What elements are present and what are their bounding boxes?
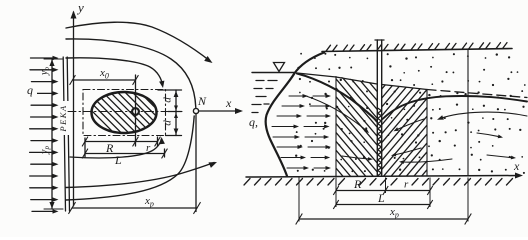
streamline into well from left (lower) [342, 156, 370, 159]
ground surface hatch marks [326, 43, 507, 52]
streamline A (top bypass) [66, 22, 210, 61]
svg-text:d: d [162, 97, 174, 103]
groundwater divide vertical (radius of influence) [467, 50, 469, 177]
svg-text:РЕКА: РЕКА [58, 104, 68, 132]
dimension x_p (right diagram) [296, 214, 472, 225]
svg-text:R: R [353, 177, 362, 191]
dimension y_p (vertical, along river) [44, 59, 63, 209]
dimension L (left diagram) [82, 138, 167, 158]
label q (inflow, left diagram) [26, 83, 37, 96]
water level marker (nabla) [274, 63, 285, 72]
drawdown curve (left of well) [297, 74, 377, 122]
svg-text:L: L [377, 191, 385, 205]
svg-text:r: r [404, 179, 409, 191]
dimension x_p (left diagram) [69, 114, 201, 214]
static water table (solid part) [297, 73, 427, 90]
static water table (dashed part) [427, 90, 527, 98]
dimension x_0 [70, 75, 138, 146]
right diagram: vertical cross-section of well near river [237, 40, 527, 185]
left diagram: plan view of well capture zone near river [26, 0, 243, 214]
river inflow arrows (left column) [30, 56, 59, 214]
streamline B (top boundary to N) [66, 39, 196, 108]
dimension d,d (vertical at ellipse right) [158, 90, 182, 136]
dashed rectangle around depression ellipse [83, 90, 166, 136]
drawdown curve (right of well) [383, 96, 528, 119]
streamline into well from right (mid) [394, 148, 421, 155]
svg-text:x: x [513, 159, 520, 173]
river water surface line [252, 72, 295, 74]
outflow arrow right of divide (lower) [487, 155, 513, 158]
dimension R and r (below ellipse) [82, 137, 160, 146]
well casing (double line) [376, 40, 378, 176]
outflow arrow right of divide (upper) [477, 133, 500, 137]
soil dots (aquifer texture) [295, 53, 526, 174]
extension lines for dimensions (right diagram) [299, 178, 468, 222]
label РЕКА (river, vertical) [60, 101, 70, 135]
well (plan view) [132, 108, 139, 115]
streamline into well from right (upper) [396, 119, 424, 130]
seepage arrows q (right diagram) [272, 94, 331, 170]
dimension L (right diagram) [333, 200, 432, 209]
streamline C (top captured, arrow into zone) [66, 58, 163, 85]
streamline toward well along base [402, 159, 452, 162]
streamline D (bottom bypass) [66, 163, 214, 188]
dimension R and r (right diagram) [333, 186, 432, 195]
river bank (S-shaped slope) [266, 53, 324, 177]
svg-text:N: N [197, 94, 207, 108]
svg-text:L: L [114, 153, 122, 167]
long streamline from far field (thin curve) [440, 112, 527, 118]
water dashes [252, 81, 277, 113]
x axis with arrow [198, 110, 240, 112]
river bank double line [63, 57, 65, 211]
svg-text:q: q [27, 83, 33, 97]
streamline F (bottom captured, arrow up into zone) [70, 139, 161, 158]
svg-text:y: y [76, 0, 84, 15]
svg-text:x: x [225, 96, 232, 110]
base hatch marks [244, 179, 513, 186]
y axis [73, 12, 75, 206]
ground surface line [322, 49, 512, 52]
streamline E (bottom boundary to N) [66, 116, 194, 200]
svg-text:d: d [162, 120, 174, 126]
label q (right diagram) [248, 114, 261, 128]
svg-text:q,: q, [249, 115, 258, 129]
centerline (dash-dot) through well [68, 111, 182, 113]
well screen (filter zigzag) [378, 108, 382, 176]
streamline into well from left (upper) [306, 96, 367, 131]
depression zone (hatched, cross-section) [237, 70, 527, 178]
depression zone ellipse (hatched) [26, 89, 198, 135]
stagnation point N [193, 108, 198, 113]
impermeable base line / x axis of section [246, 176, 520, 178]
